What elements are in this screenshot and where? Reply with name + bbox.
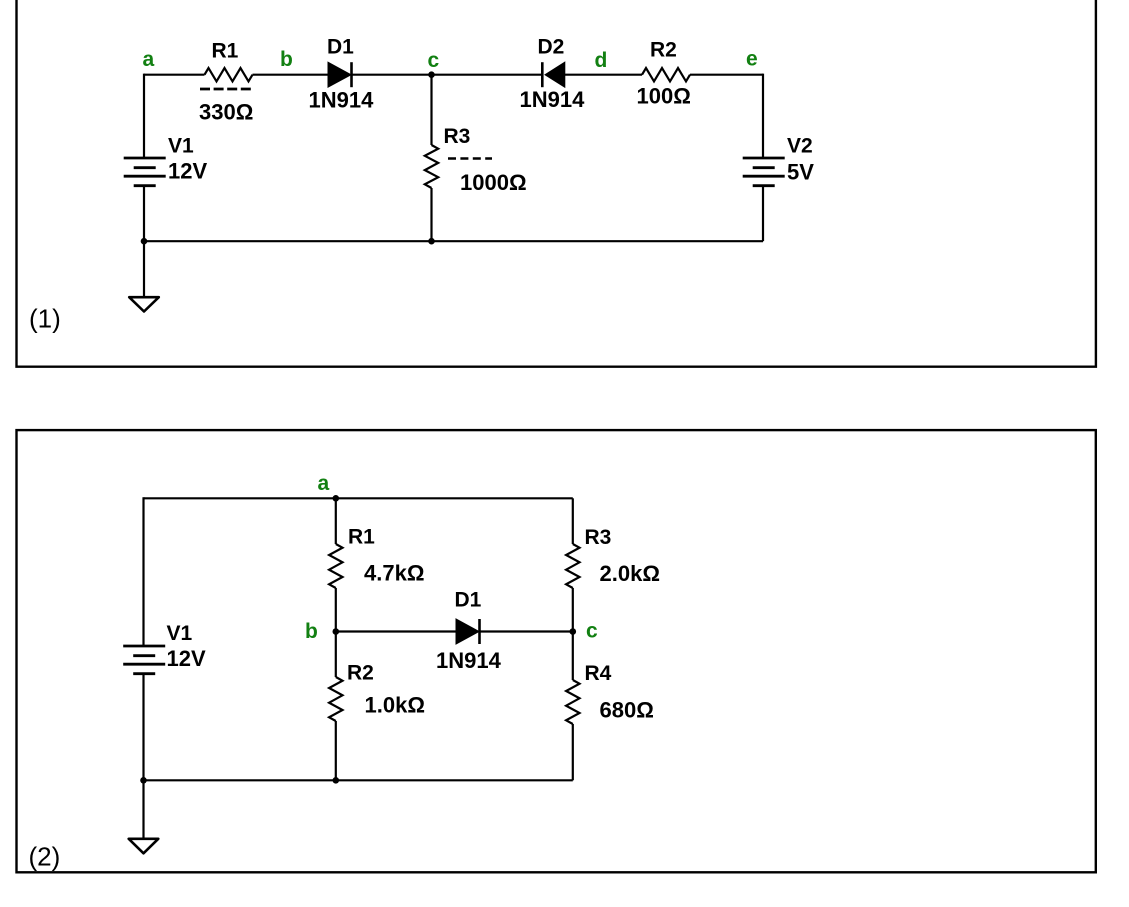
wire c down to R4: [572, 632, 574, 681]
svg-text:(1): (1): [29, 304, 61, 334]
svg-text:R4: R4: [585, 662, 612, 685]
diode D1: [328, 62, 351, 87]
svg-text:4.7kΩ: 4.7kΩ: [364, 561, 424, 586]
svg-text:c: c: [586, 620, 598, 643]
wire V2 to bottom rail: [762, 186, 764, 242]
svg-text:2.0kΩ: 2.0kΩ: [600, 561, 660, 586]
node a junction: [333, 495, 340, 502]
svg-text:1N914: 1N914: [309, 88, 375, 113]
resistor R3: [425, 145, 438, 188]
frame box 2: [17, 430, 1096, 872]
svg-text:V1: V1: [167, 622, 193, 645]
svg-text:12V: 12V: [168, 159, 207, 184]
svg-text:330Ω: 330Ω: [199, 100, 253, 125]
svg-text:R3: R3: [585, 526, 612, 549]
top rail wire: [144, 497, 573, 499]
junction at R3 bottom: [428, 238, 435, 245]
svg-text:R2: R2: [650, 39, 677, 62]
junction at V1 bottom: [140, 777, 147, 784]
svg-text:a: a: [143, 48, 155, 71]
wire D1 to node c: [353, 74, 432, 76]
svg-text:D2: D2: [538, 36, 565, 59]
svg-text:a: a: [318, 472, 330, 495]
svg-text:680Ω: 680Ω: [600, 698, 654, 723]
svg-text:V2: V2: [787, 135, 813, 158]
svg-text:1.0kΩ: 1.0kΩ: [365, 693, 425, 718]
wire R2 to bottom rail: [335, 721, 337, 780]
svg-text:c: c: [428, 49, 440, 72]
bottom rail wire: [144, 240, 763, 242]
node b junction: [333, 628, 340, 635]
wire R3 to bottom rail: [430, 188, 432, 241]
wire R1 to D1: [253, 74, 329, 76]
wire R3 to node c: [572, 588, 574, 632]
svg-text:b: b: [280, 48, 293, 71]
ground 1: [129, 297, 159, 311]
svg-text:D1: D1: [455, 589, 482, 612]
svg-text:R2: R2: [347, 662, 374, 685]
wire a down to R3: [572, 498, 574, 544]
wire to ground 1: [143, 241, 145, 297]
ground 2: [129, 839, 159, 854]
wire D1 to node c: [481, 630, 573, 632]
wire R2 to node e: [690, 74, 763, 76]
resistor R2: [642, 68, 690, 81]
svg-text:d: d: [595, 49, 608, 72]
svg-text:e: e: [746, 48, 758, 71]
wire b to D1: [336, 630, 457, 632]
wire a down to V1: [142, 497, 144, 646]
wire e down to V2: [762, 74, 764, 158]
wire node c to D2: [432, 74, 543, 76]
svg-text:D1: D1: [327, 36, 354, 59]
resistor R1: [205, 68, 253, 81]
wire to ground 2: [142, 780, 144, 839]
resistor R2: [329, 677, 342, 721]
svg-text:R3: R3: [444, 125, 471, 148]
svg-text:(2): (2): [29, 842, 61, 872]
wire a down to R1: [335, 498, 337, 544]
diode D1: [456, 619, 479, 644]
svg-text:5V: 5V: [787, 160, 814, 185]
node c junction: [428, 71, 435, 78]
svg-text:V1: V1: [168, 135, 194, 158]
svg-text:b: b: [305, 620, 318, 643]
resistor R4: [566, 680, 579, 724]
svg-text:12V: 12V: [167, 646, 206, 671]
wire R1 to node b: [335, 588, 337, 632]
wire b down to R2: [335, 632, 337, 678]
dashed mark right of R3: [448, 157, 492, 160]
diode D2: [541, 62, 544, 87]
junction at V1 bottom: [141, 238, 148, 245]
wire D2 to R2: [565, 74, 642, 76]
node c junction: [570, 628, 577, 635]
svg-text:R1: R1: [348, 526, 375, 549]
resistor R3: [566, 544, 579, 588]
battery V2: [743, 157, 785, 160]
battery V1: [124, 157, 166, 160]
resistor R1: [329, 544, 342, 588]
junction at R2 bottom: [333, 777, 340, 784]
wire V1 to bottom rail: [143, 186, 145, 242]
wire node c down to R3: [430, 75, 432, 145]
frame box 1: [17, 0, 1096, 367]
wire R4 to bottom rail: [572, 724, 574, 780]
wire V1 to bottom rail: [142, 674, 144, 781]
wire a to R1: [144, 74, 205, 76]
bottom rail wire: [144, 779, 573, 781]
svg-text:1000Ω: 1000Ω: [460, 170, 527, 195]
wire a down to V1: [143, 74, 145, 158]
dashed mark under R1: [200, 88, 251, 91]
svg-text:100Ω: 100Ω: [637, 84, 691, 109]
battery V1: [123, 645, 165, 648]
svg-text:1N914: 1N914: [436, 648, 502, 673]
svg-text:R1: R1: [212, 40, 239, 63]
svg-text:1N914: 1N914: [520, 87, 586, 112]
